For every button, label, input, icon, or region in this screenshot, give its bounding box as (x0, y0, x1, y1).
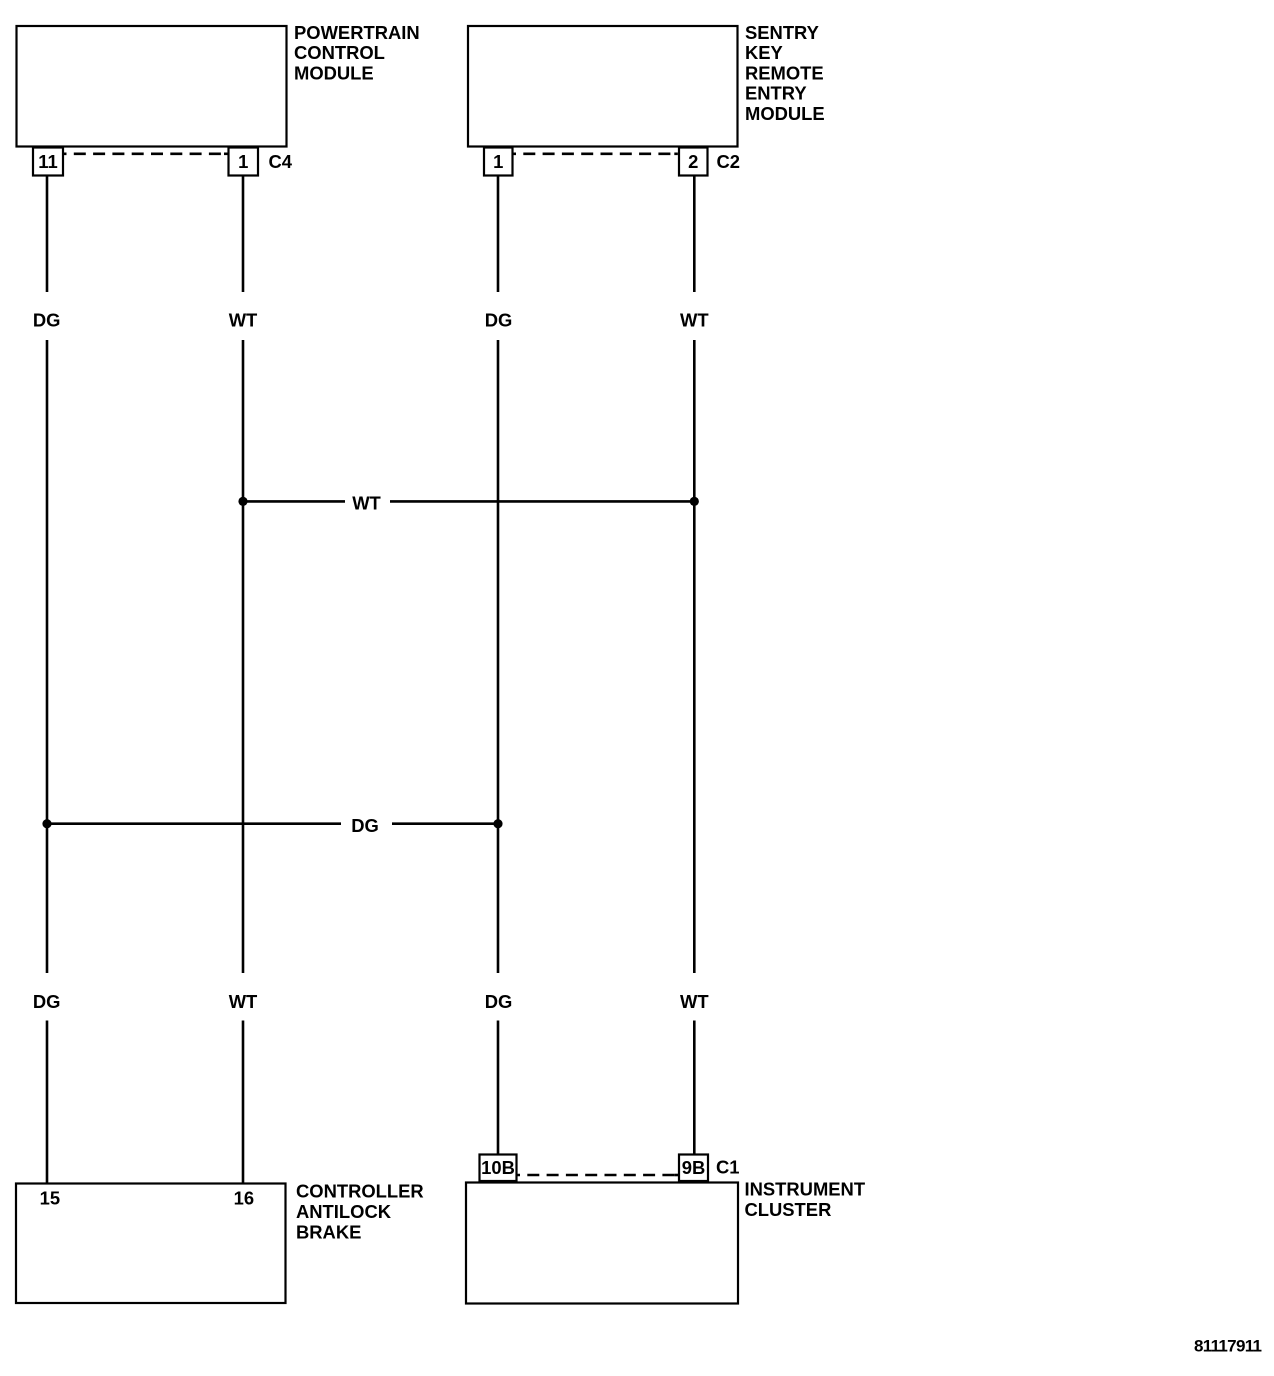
svg-text:C2: C2 (717, 151, 741, 172)
sentry key remote entry module box U2 (468, 26, 738, 147)
wire DG column 1 lower (46, 1021, 49, 1184)
svg-text:WT: WT (229, 991, 258, 1012)
dashed bar C1 right tick (675, 1174, 679, 1177)
svg-text:81117911: 81117911 (1194, 1337, 1262, 1356)
svg-text:DG: DG (33, 991, 61, 1012)
horizontal DG bus wire left segment (47, 822, 341, 825)
junction dot WT left (238, 497, 247, 506)
sentry key remote entry module label (745, 22, 825, 124)
svg-text:9B: 9B (682, 1157, 706, 1178)
svg-text:15: 15 (40, 1188, 60, 1209)
instrument cluster label (745, 1179, 866, 1220)
svg-text:16: 16 (234, 1188, 254, 1209)
svg-text:MODULE: MODULE (294, 63, 374, 84)
svg-text:WT: WT (352, 493, 381, 514)
pin 9B box (IC C1) (679, 1155, 708, 1182)
horizontal DG bus wire right segment (392, 822, 498, 825)
svg-text:WT: WT (229, 310, 258, 331)
svg-text:POWERTRAIN: POWERTRAIN (294, 22, 420, 43)
svg-text:C4: C4 (269, 151, 293, 172)
svg-text:REMOTE: REMOTE (745, 62, 824, 83)
pin 10B box (IC C1) (480, 1155, 517, 1182)
svg-text:WT: WT (680, 991, 709, 1012)
wire WT column 4 upper (693, 177, 696, 293)
dashed connector bar C4 (64, 153, 228, 156)
svg-text:10B: 10B (481, 1157, 515, 1178)
pin 1 box (SKREEM C2) (484, 148, 513, 176)
pin 2 box (SKREEM C2) (679, 148, 708, 176)
svg-text:DG: DG (33, 310, 61, 331)
wire WT column 2 lower (242, 1021, 245, 1184)
junction dot DG left (42, 819, 51, 828)
wire DG column 1 upper (46, 177, 49, 293)
wire WT column 2 middle (242, 340, 245, 973)
pin 1 box (PCM C4) (229, 148, 259, 176)
svg-text:KEY: KEY (745, 42, 783, 63)
svg-text:CONTROLLER: CONTROLLER (296, 1180, 424, 1201)
svg-text:INSTRUMENT: INSTRUMENT (745, 1179, 866, 1200)
svg-text:ANTILOCK: ANTILOCK (296, 1201, 392, 1222)
svg-text:11: 11 (38, 151, 57, 172)
dashed bar C2 right tick (674, 153, 678, 156)
svg-text:1: 1 (493, 151, 503, 172)
pin 11 box (PCM C4) (33, 148, 63, 176)
powertrain control module box U1 (17, 26, 287, 147)
svg-text:DG: DG (485, 991, 513, 1012)
svg-text:DG: DG (351, 815, 379, 836)
wire WT column 4 middle (693, 340, 696, 973)
svg-text:CONTROL: CONTROL (294, 42, 385, 63)
dashed connector bar C1 (518, 1174, 679, 1177)
wire DG column 3 lower (497, 1021, 500, 1156)
wire WT column 2 upper (242, 177, 245, 293)
wire DG column 1 middle (46, 340, 49, 973)
junction dot WT right (690, 497, 699, 506)
wire DG column 3 middle (497, 340, 500, 973)
svg-text:CLUSTER: CLUSTER (745, 1199, 832, 1220)
junction dot DG right (493, 819, 502, 828)
wire WT column 4 lower (693, 1021, 696, 1156)
dashed connector bar C2 (514, 153, 678, 156)
horizontal WT bus wire left segment (243, 500, 345, 503)
controller antilock brake box U3 (16, 1184, 286, 1304)
svg-text:WT: WT (680, 310, 709, 331)
svg-text:C1: C1 (716, 1157, 740, 1178)
dashed bar C4 right tick (224, 153, 228, 156)
controller antilock brake label (296, 1180, 424, 1242)
wire DG column 3 upper (497, 177, 500, 293)
powertrain control module label (294, 22, 420, 84)
svg-text:SENTRY: SENTRY (745, 22, 819, 43)
horizontal WT bus wire right segment (390, 500, 694, 503)
svg-text:DG: DG (485, 310, 513, 331)
svg-text:MODULE: MODULE (745, 103, 825, 124)
svg-text:2: 2 (688, 151, 698, 172)
svg-text:BRAKE: BRAKE (296, 1221, 361, 1242)
svg-text:ENTRY: ENTRY (745, 83, 807, 104)
svg-text:1: 1 (238, 151, 248, 172)
instrument cluster box U4 (466, 1183, 738, 1304)
